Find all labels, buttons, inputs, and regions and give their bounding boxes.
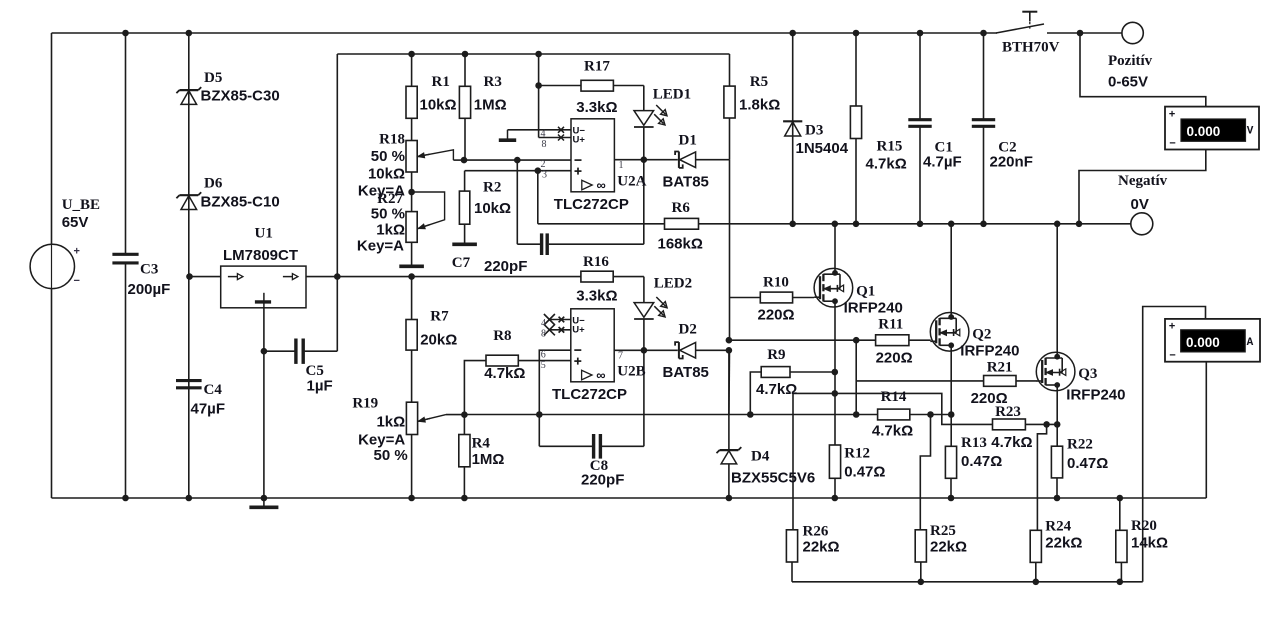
- svg-text:D3: D3: [805, 123, 823, 139]
- svg-text:R12: R12: [844, 445, 870, 461]
- svg-text:R11: R11: [878, 316, 903, 332]
- svg-text:Q1: Q1: [856, 283, 875, 299]
- svg-text:0.000: 0.000: [1186, 335, 1220, 350]
- svg-text:6: 6: [541, 350, 546, 361]
- svg-text:22kΩ: 22kΩ: [1045, 534, 1082, 551]
- svg-text:D5: D5: [204, 70, 222, 86]
- svg-text:Pozitív: Pozitív: [1108, 53, 1153, 69]
- svg-text:220pF: 220pF: [484, 258, 527, 275]
- svg-text:0V: 0V: [1131, 196, 1149, 213]
- svg-text:220pF: 220pF: [581, 471, 624, 488]
- svg-text:−: −: [1169, 351, 1176, 363]
- svg-text:BZX85-C30: BZX85-C30: [201, 88, 280, 105]
- svg-text:R13: R13: [961, 435, 987, 451]
- svg-text:−: −: [74, 275, 80, 287]
- svg-text:10kΩ: 10kΩ: [474, 200, 511, 217]
- svg-text:D4: D4: [751, 449, 770, 465]
- svg-text:50 %: 50 %: [373, 447, 407, 464]
- svg-text:168kΩ: 168kΩ: [658, 236, 703, 253]
- svg-text:0.47Ω: 0.47Ω: [1067, 455, 1108, 472]
- svg-text:A: A: [1247, 337, 1254, 349]
- svg-text:BAT85: BAT85: [663, 173, 709, 190]
- svg-text:22kΩ: 22kΩ: [930, 538, 967, 555]
- svg-text:BZX55C5V6: BZX55C5V6: [731, 469, 815, 486]
- svg-text:U1: U1: [255, 226, 273, 242]
- svg-text:IRFP240: IRFP240: [1066, 386, 1125, 403]
- svg-text:R14: R14: [881, 389, 907, 405]
- svg-text:7: 7: [618, 350, 623, 361]
- svg-text:Negatív: Negatív: [1118, 173, 1168, 189]
- svg-text:2: 2: [541, 159, 546, 170]
- svg-text:8: 8: [541, 328, 546, 339]
- svg-text:Q2: Q2: [972, 326, 991, 342]
- svg-text:R20: R20: [1131, 518, 1157, 534]
- svg-text:R26: R26: [803, 523, 829, 539]
- svg-text:4: 4: [541, 129, 546, 140]
- svg-text:4.7µF: 4.7µF: [923, 153, 962, 170]
- svg-text:3.3kΩ: 3.3kΩ: [576, 288, 617, 305]
- svg-text:8: 8: [542, 139, 547, 150]
- svg-text:V: V: [1247, 126, 1254, 138]
- svg-text:R22: R22: [1067, 436, 1093, 452]
- svg-text:BAT85: BAT85: [663, 364, 709, 381]
- svg-text:220Ω: 220Ω: [758, 306, 795, 323]
- svg-text:1µF: 1µF: [307, 378, 333, 395]
- svg-text:0.47Ω: 0.47Ω: [844, 463, 885, 480]
- svg-text:10kΩ: 10kΩ: [368, 166, 405, 183]
- svg-text:IRFP240: IRFP240: [960, 342, 1019, 359]
- svg-text:R3: R3: [484, 74, 502, 90]
- svg-text:D1: D1: [679, 132, 697, 148]
- svg-text:220nF: 220nF: [990, 153, 1033, 170]
- svg-text:3.3kΩ: 3.3kΩ: [576, 99, 617, 116]
- svg-text:3: 3: [542, 170, 547, 181]
- svg-text:∞: ∞: [597, 177, 606, 192]
- svg-text:R8: R8: [493, 328, 511, 344]
- svg-text:R16: R16: [583, 254, 609, 270]
- svg-text:1N5404: 1N5404: [796, 140, 849, 157]
- svg-text:4: 4: [541, 318, 546, 329]
- svg-text:4.7kΩ: 4.7kΩ: [866, 155, 907, 172]
- svg-text:R7: R7: [430, 308, 449, 324]
- svg-text:BZX85-C10: BZX85-C10: [201, 193, 280, 210]
- svg-text:Key=A: Key=A: [357, 238, 404, 255]
- svg-text:1: 1: [619, 160, 624, 171]
- svg-text:∞: ∞: [596, 367, 605, 382]
- svg-text:47µF: 47µF: [191, 401, 226, 418]
- svg-text:R19: R19: [352, 395, 378, 411]
- svg-text:R17: R17: [584, 59, 610, 75]
- svg-text:LED2: LED2: [654, 276, 692, 292]
- svg-text:D6: D6: [204, 176, 223, 192]
- svg-text:D2: D2: [679, 321, 697, 337]
- svg-text:−: −: [1169, 139, 1176, 151]
- svg-text:4.7kΩ: 4.7kΩ: [991, 434, 1032, 451]
- svg-text:R23: R23: [995, 404, 1021, 420]
- svg-text:50 %: 50 %: [371, 206, 405, 223]
- svg-text:U2B: U2B: [617, 364, 645, 380]
- svg-text:R9: R9: [767, 347, 785, 363]
- svg-text:IRFP240: IRFP240: [844, 299, 903, 316]
- svg-text:R15: R15: [877, 138, 903, 154]
- svg-text:10kΩ: 10kΩ: [420, 97, 457, 114]
- svg-text:R10: R10: [763, 275, 789, 291]
- svg-text:0-65V: 0-65V: [1108, 73, 1148, 90]
- svg-text:Key=A: Key=A: [358, 431, 405, 448]
- svg-text:U2A: U2A: [617, 174, 646, 190]
- svg-text:R1: R1: [432, 74, 450, 90]
- svg-text:R6: R6: [672, 200, 691, 216]
- svg-text:1kΩ: 1kΩ: [376, 414, 405, 431]
- svg-text:200µF: 200µF: [128, 281, 171, 298]
- svg-text:R4: R4: [472, 435, 491, 451]
- svg-text:R18: R18: [379, 132, 405, 148]
- svg-text:50 %: 50 %: [371, 148, 405, 165]
- svg-text:4.7kΩ: 4.7kΩ: [756, 381, 797, 398]
- svg-text:R25: R25: [930, 523, 956, 539]
- svg-text:1.8kΩ: 1.8kΩ: [739, 97, 780, 114]
- svg-text:22kΩ: 22kΩ: [803, 538, 840, 555]
- svg-text:1MΩ: 1MΩ: [474, 97, 507, 114]
- svg-text:U+: U+: [573, 134, 586, 145]
- svg-text:TLC272CP: TLC272CP: [552, 386, 627, 403]
- svg-text:+: +: [1169, 110, 1176, 122]
- svg-text:U+: U+: [572, 324, 585, 335]
- svg-text:BTH70V: BTH70V: [1002, 40, 1060, 56]
- svg-text:R24: R24: [1045, 518, 1071, 534]
- svg-text:5: 5: [541, 360, 546, 371]
- svg-text:1MΩ: 1MΩ: [472, 451, 505, 468]
- svg-text:20kΩ: 20kΩ: [420, 331, 457, 348]
- svg-text:C3: C3: [140, 262, 158, 278]
- svg-text:Q3: Q3: [1078, 366, 1097, 382]
- svg-text:U_BE: U_BE: [62, 197, 100, 213]
- svg-text:220Ω: 220Ω: [876, 350, 913, 367]
- svg-text:R5: R5: [750, 74, 768, 90]
- svg-text:R21: R21: [987, 359, 1013, 375]
- svg-text:0.000: 0.000: [1187, 124, 1221, 139]
- svg-text:14kΩ: 14kΩ: [1131, 534, 1168, 551]
- svg-text:TLC272CP: TLC272CP: [554, 196, 629, 213]
- svg-text:C4: C4: [204, 382, 223, 398]
- svg-text:LED1: LED1: [653, 87, 691, 103]
- svg-text:C7: C7: [452, 255, 471, 271]
- svg-text:4.7kΩ: 4.7kΩ: [484, 365, 525, 382]
- svg-text:LM7809CT: LM7809CT: [223, 247, 298, 264]
- svg-text:65V: 65V: [62, 214, 89, 231]
- svg-text:+: +: [74, 246, 80, 258]
- svg-text:4.7kΩ: 4.7kΩ: [872, 423, 913, 440]
- svg-text:+: +: [1169, 322, 1176, 334]
- svg-text:1kΩ: 1kΩ: [376, 222, 405, 239]
- svg-text:0.47Ω: 0.47Ω: [961, 453, 1002, 470]
- svg-text:R2: R2: [483, 179, 501, 195]
